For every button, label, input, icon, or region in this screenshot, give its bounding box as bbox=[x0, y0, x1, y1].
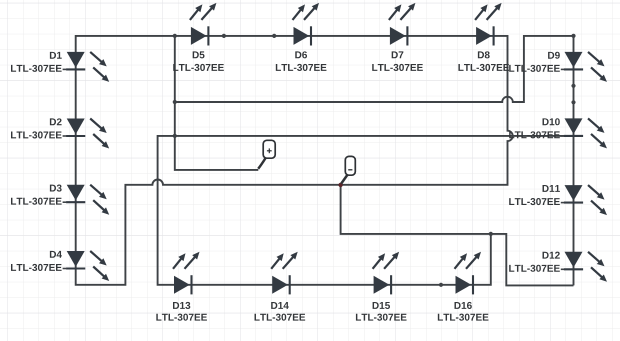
junction D16 riser on y=234 rail bbox=[489, 232, 493, 236]
junction top of right column bbox=[571, 34, 575, 38]
value LTL-307EE (D2) bbox=[11, 131, 62, 138]
LED D10 (LTL-307EE), down-pointing, anode top bbox=[561, 118, 607, 148]
value LTL-307EE (D4) bbox=[11, 264, 62, 271]
LED D7 (LTL-307EE), right-pointing, anode left bbox=[389, 3, 416, 46]
value LTL-307EE (D1) bbox=[11, 65, 62, 72]
label D2 bbox=[50, 118, 62, 125]
LED D2 (LTL-307EE), down-pointing, anode top bbox=[63, 119, 110, 149]
junction before D6 anode bbox=[272, 34, 276, 38]
node minus terminal junction (red) bbox=[338, 183, 342, 187]
junction node A / y136 rail bbox=[173, 134, 177, 138]
LED D16 (LTL-307EE), right-pointing, anode left bbox=[455, 252, 482, 295]
wire: y=136 rail from corner x157.6 to D10 cathode, then down to bottom LED row feeding D13..D16 bbox=[158, 136, 566, 285]
LED D14 (LTL-307EE), right-pointing, anode left bbox=[271, 252, 298, 295]
LED D9 (LTL-307EE), down-pointing, anode top bbox=[561, 52, 607, 82]
value LTL-307EE (D5) bbox=[173, 64, 224, 71]
LED D1 (LTL-307EE), down-pointing, anode top bbox=[63, 52, 110, 82]
label D4 bbox=[50, 251, 62, 258]
label D13 bbox=[173, 302, 190, 309]
label D8 bbox=[478, 51, 490, 58]
value LTL-307EE (D12) bbox=[509, 265, 560, 272]
value LTL-307EE (D11) bbox=[509, 198, 560, 205]
label D5 bbox=[193, 51, 205, 58]
LED D15 (LTL-307EE), right-pointing, anode left bbox=[373, 252, 400, 295]
label D15 bbox=[373, 302, 390, 309]
value LTL-307EE (D6) bbox=[276, 64, 327, 71]
label D16 bbox=[454, 302, 471, 309]
LED D12 (LTL-307EE), down-pointing, anode top bbox=[561, 252, 607, 282]
label D9 bbox=[548, 52, 560, 59]
label D12 bbox=[543, 252, 560, 259]
label D10 bbox=[543, 118, 560, 125]
value LTL-307EE (D16) bbox=[438, 314, 489, 321]
label D14 bbox=[271, 302, 289, 309]
LED D4 (LTL-307EE), down-pointing, anode top bbox=[63, 251, 110, 281]
junction above D10 anode bbox=[571, 100, 575, 104]
label D7 bbox=[392, 51, 404, 58]
callout + terminal marker bbox=[258, 140, 275, 169]
LED D8 (LTL-307EE), right-pointing, anode left bbox=[475, 3, 502, 46]
wire: right column rail through D9..D12 bbox=[573, 36, 575, 286]
label D1 bbox=[50, 52, 62, 59]
LED D5 (LTL-307EE), right-pointing, anode left bbox=[190, 3, 217, 46]
value LTL-307EE (D15) bbox=[356, 314, 407, 321]
label D3 bbox=[50, 185, 62, 192]
LED D13 (LTL-307EE), right-pointing, anode left bbox=[173, 252, 200, 295]
wire: negative branch from junction (340.6,184.9) down to y=234 rail, to bottom-right riser joining D12 cathode bbox=[341, 185, 574, 286]
junction node A on top rail bbox=[173, 34, 177, 38]
value LTL-307EE (D10) bbox=[509, 131, 560, 138]
callout - terminal marker bbox=[341, 156, 355, 183]
LED D3 (LTL-307EE), down-pointing, anode top bbox=[63, 185, 110, 215]
wire: y=102 branch from node A to D9 anode (hops over D8 drop wire) bbox=[175, 36, 574, 102]
wire: positive branch x=174.8 from top rail down to + terminal stub bbox=[175, 36, 258, 170]
wire: outer loop — left column rail, top rail, D8 drop (hops + rail at y136), return rail y185 to D4 bottom bbox=[76, 36, 513, 285]
junction before D16 anode bbox=[439, 283, 443, 287]
LED D6 (LTL-307EE), right-pointing, anode left bbox=[293, 3, 320, 46]
LED D11 (LTL-307EE), down-pointing, anode top bbox=[561, 185, 607, 215]
value LTL-307EE (D3) bbox=[11, 198, 62, 205]
label D6 bbox=[295, 51, 307, 58]
junction node A / y102 branch bbox=[173, 100, 177, 104]
value LTL-307EE (D13) bbox=[156, 314, 207, 321]
junction after D5 cathode bbox=[222, 34, 226, 38]
junction below D9 cathode bbox=[571, 84, 575, 88]
label D11 bbox=[543, 185, 560, 192]
value LTL-307EE (D14) bbox=[255, 314, 306, 321]
value LTL-307EE (D9) bbox=[509, 65, 560, 72]
value LTL-307EE (D8) bbox=[458, 64, 509, 71]
value LTL-307EE (D7) bbox=[372, 64, 423, 71]
